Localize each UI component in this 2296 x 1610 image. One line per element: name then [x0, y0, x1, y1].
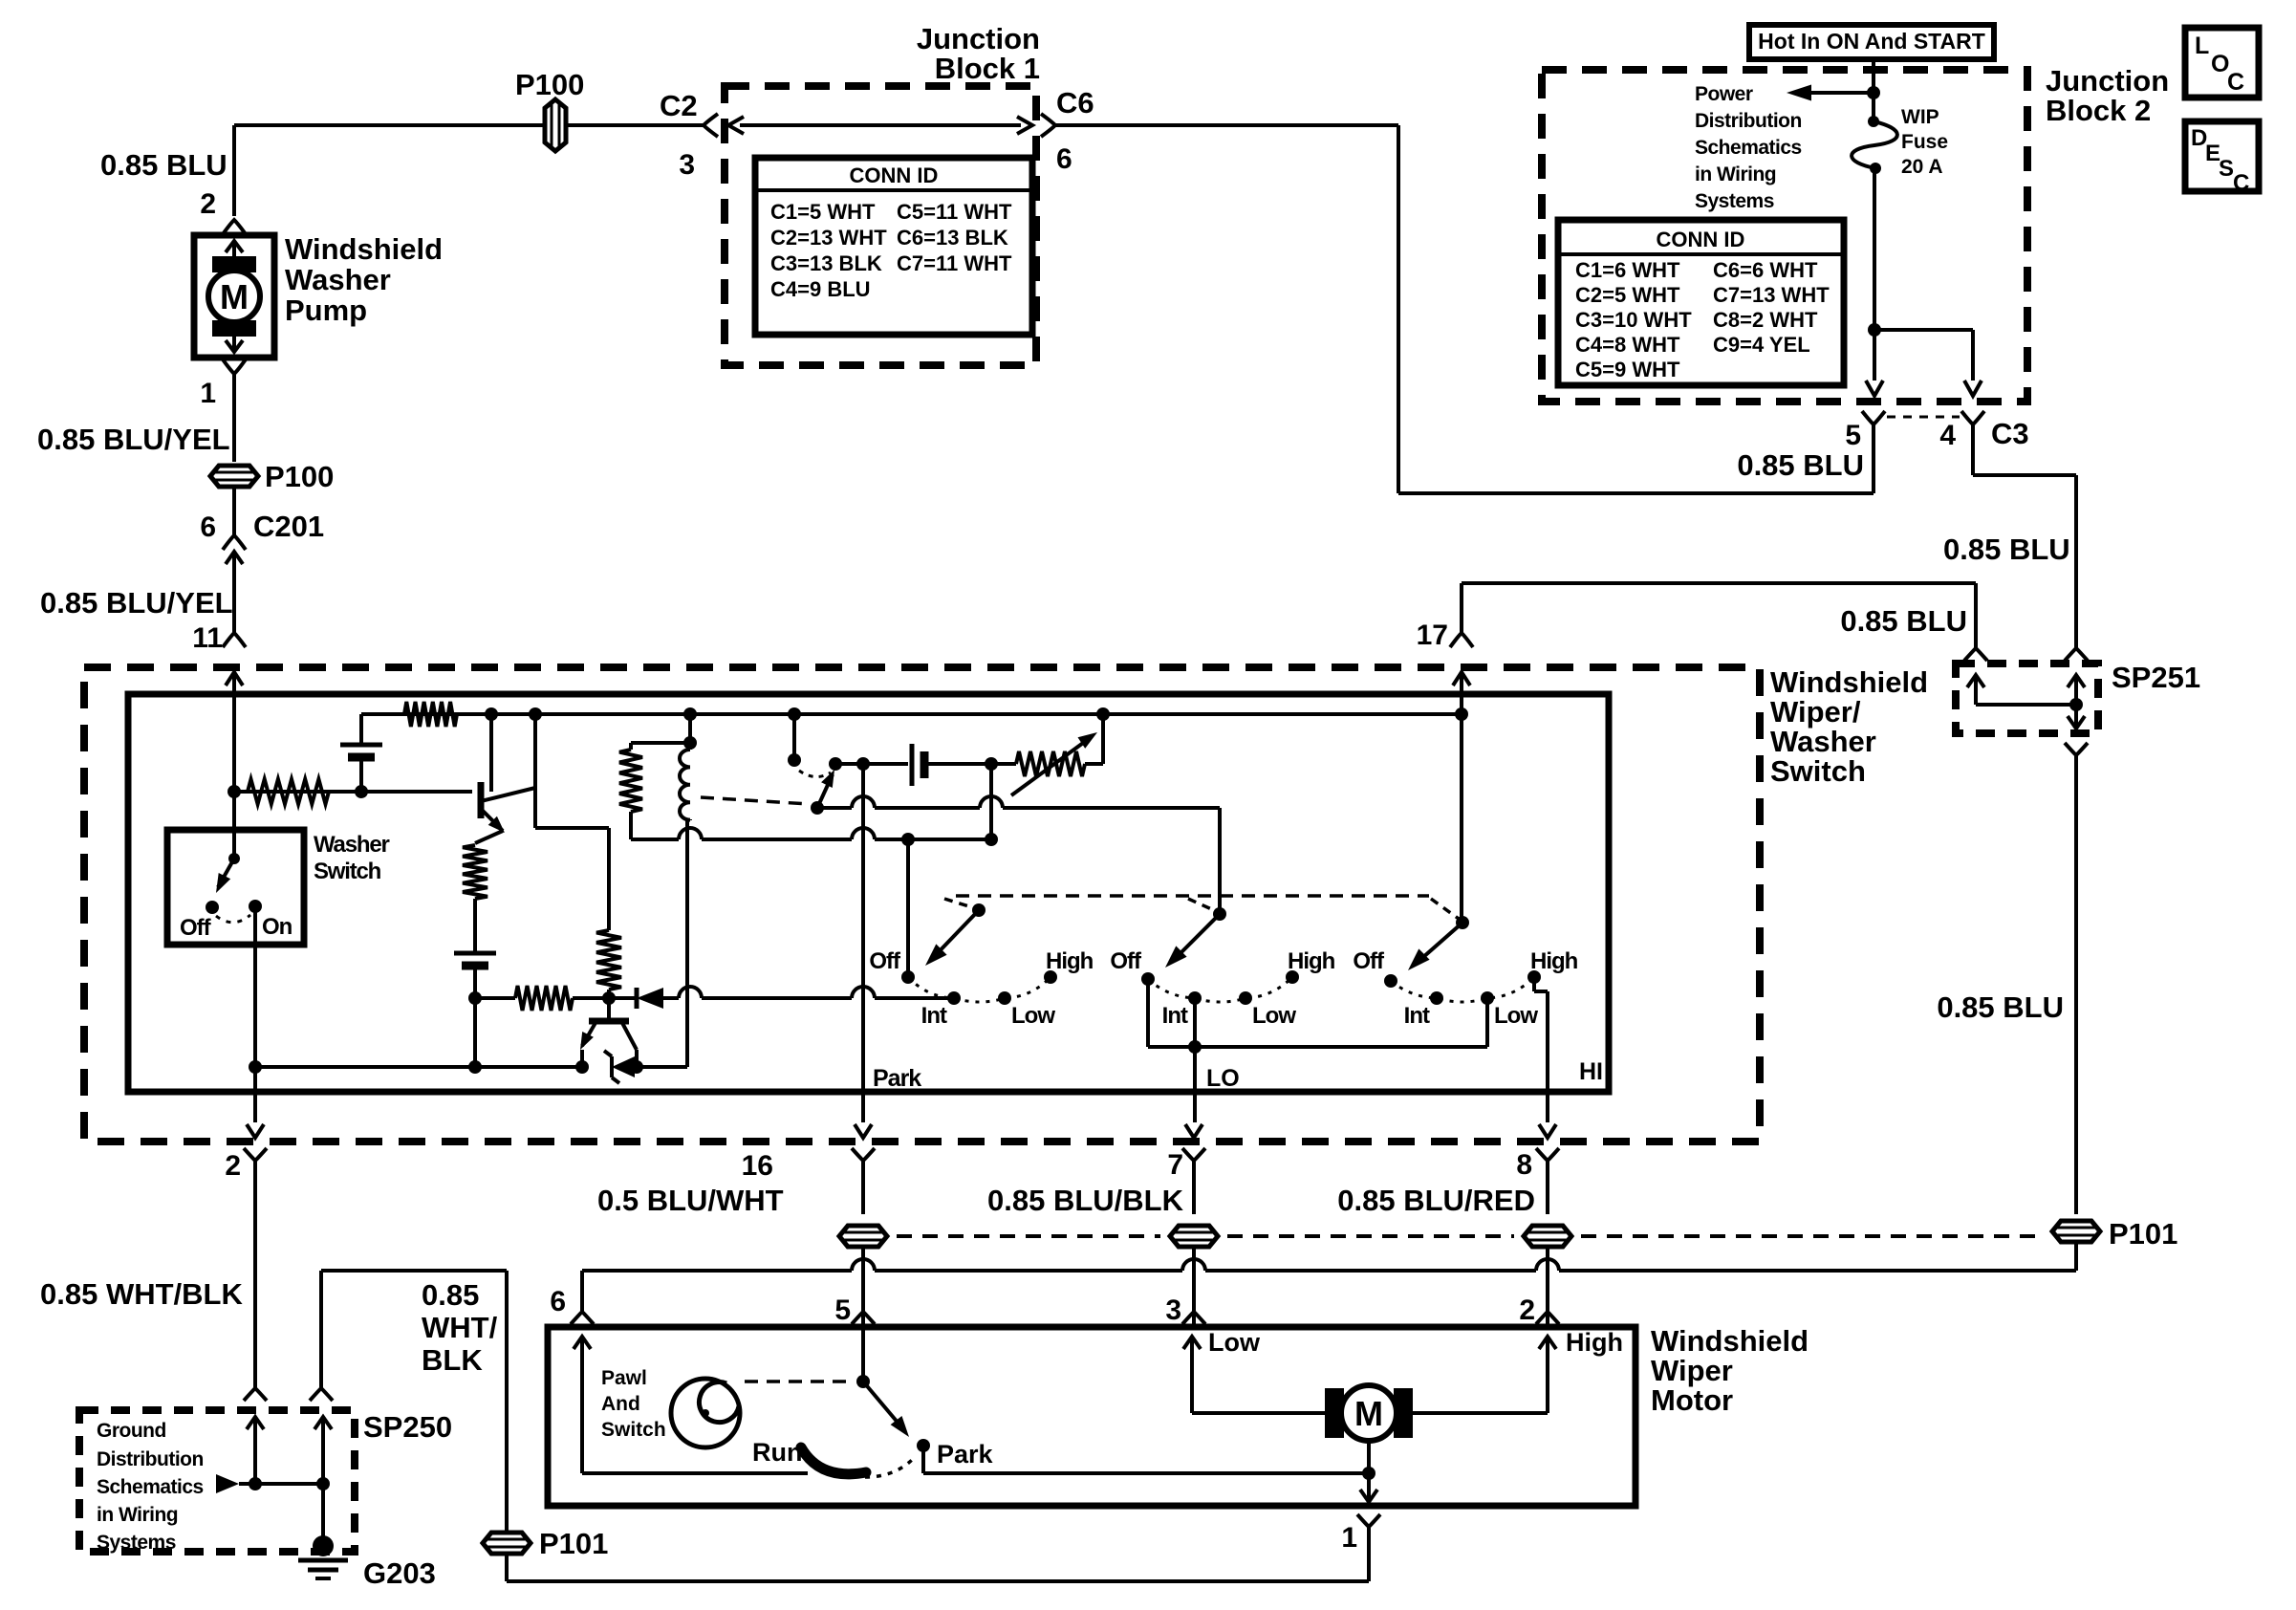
svg-text:G203: G203	[363, 1556, 436, 1590]
P101 grommet right	[2052, 1221, 2100, 1242]
svg-text:C5=9 WHT: C5=9 WHT	[1575, 358, 1680, 381]
rail1 junction dots	[485, 707, 498, 721]
svg-text:Int: Int	[921, 1003, 947, 1029]
svg-text:C7=11 WHT: C7=11 WHT	[897, 251, 1012, 275]
svg-text:Windshield: Windshield	[285, 232, 443, 266]
relay resistor vertical	[619, 750, 642, 812]
P101 grommet left	[483, 1533, 531, 1554]
wire collector to R4 column	[535, 826, 609, 830]
svg-text:SP250: SP250	[363, 1410, 452, 1444]
svg-text:Switch: Switch	[1770, 754, 1866, 788]
switch3 Low contact	[1481, 991, 1494, 1005]
wire motor pin1 riser	[1367, 1527, 1371, 1581]
transistor Q2 base bar	[589, 1018, 629, 1025]
VR1 arrow	[1011, 738, 1090, 795]
svg-text:Power: Power	[1695, 83, 1753, 105]
svg-text:C3: C3	[1991, 417, 2029, 450]
trigger bend to pivot3	[1431, 899, 1459, 919]
svg-text:CONN ID: CONN ID	[850, 163, 939, 187]
washer switch box	[167, 830, 304, 945]
svg-text:P101: P101	[539, 1527, 608, 1560]
zener diode on bus2	[612, 1056, 635, 1077]
LOC box	[2185, 28, 2259, 98]
svg-text:1: 1	[200, 378, 216, 409]
svg-text:Washer: Washer	[314, 832, 389, 858]
svg-text:C1=6 WHT: C1=6 WHT	[1575, 258, 1680, 282]
svg-text:in Wiring: in Wiring	[1695, 163, 1776, 185]
svg-text:C1=5 WHT: C1=5 WHT	[770, 200, 876, 224]
svg-text:Off: Off	[1353, 948, 1385, 974]
junction dot cap right	[985, 757, 998, 771]
capacitor C1 plates	[910, 744, 915, 786]
svg-text:Off: Off	[180, 915, 212, 941]
wire R4 to bus1	[607, 990, 611, 998]
switch2 Int contact	[1188, 991, 1202, 1005]
JB1 CONN ID table box	[755, 158, 1032, 335]
line A hop over cap column	[980, 796, 1003, 808]
relay arm	[817, 774, 833, 808]
svg-text:3: 3	[1165, 1295, 1181, 1326]
line A from relay pivot	[817, 806, 852, 810]
ground wire bottom horizontal	[507, 1579, 1369, 1583]
svg-text:Switch: Switch	[601, 1419, 666, 1441]
diode D1 on bus1	[635, 988, 639, 1009]
svg-text:Block 1: Block 1	[935, 52, 1040, 85]
wire On output x=267	[253, 906, 257, 1122]
svg-text:SP251: SP251	[2112, 661, 2200, 694]
inline connector P100 (top)	[545, 99, 566, 151]
wire 2 exit arrow	[247, 1124, 264, 1138]
svg-text:High: High	[1046, 948, 1094, 974]
ground wire SP250 riser	[319, 1271, 323, 1388]
svg-text:C6=13 BLK: C6=13 BLK	[897, 226, 1008, 250]
svg-text:WHT/: WHT/	[422, 1311, 498, 1344]
wire VR1 to rail1	[1085, 762, 1103, 766]
wire 7 grommet to motor pin3	[1192, 1247, 1196, 1325]
svg-text:Distribution: Distribution	[97, 1448, 204, 1470]
wire cap right column	[989, 764, 993, 839]
svg-text:Washer: Washer	[285, 263, 391, 296]
P101 grommet wire8	[1524, 1226, 1571, 1247]
svg-text:6: 6	[550, 1286, 566, 1317]
bus1 hop over coil wire	[679, 987, 702, 998]
SP251 left internal arrow	[1974, 675, 1978, 705]
wire fuse to outputs	[1873, 168, 1876, 381]
svg-text:2: 2	[200, 188, 216, 220]
wire 16 exit chevron	[852, 1148, 875, 1161]
pump motor brush bottom	[212, 320, 256, 337]
svg-text:C: C	[2233, 170, 2249, 196]
wire 8 exit arrow	[1539, 1124, 1556, 1138]
svg-text:LO: LO	[1206, 1065, 1240, 1092]
junction dot relay top	[683, 736, 697, 750]
SP250 triangle arrow	[216, 1474, 239, 1493]
svg-text:Block 2: Block 2	[2046, 94, 2151, 127]
trigger dashed line	[956, 894, 1429, 898]
motor pin3 chevron	[1182, 1312, 1205, 1324]
connector C201 chevron pair	[223, 535, 246, 550]
svg-text:0.85 WHT/BLK: 0.85 WHT/BLK	[40, 1277, 243, 1311]
motor pin5 chevron	[852, 1312, 875, 1324]
svg-text:0.85 BLU: 0.85 BLU	[1737, 448, 1864, 482]
switch2 Off contact	[1141, 972, 1155, 986]
SP251 internal link	[1976, 703, 2076, 707]
svg-text:Low: Low	[1208, 1328, 1261, 1357]
motor M brush left	[1325, 1388, 1344, 1438]
junction dot LO bus	[1188, 1040, 1202, 1054]
switch2 High contact	[1286, 970, 1299, 984]
park wire x=903	[861, 764, 865, 1122]
svg-text:CONN ID: CONN ID	[1657, 228, 1745, 251]
svg-text:11: 11	[192, 622, 223, 654]
motor feed wire y=1329	[582, 1269, 852, 1273]
feed hop over wire16	[852, 1259, 875, 1271]
run/park arm	[863, 1382, 904, 1430]
connector chevron wire 17	[1450, 633, 1473, 647]
svg-text:High: High	[1566, 1328, 1623, 1357]
motor M bottom lead	[1367, 1441, 1371, 1473]
svg-text:3: 3	[679, 149, 695, 181]
svg-text:C2=13 WHT: C2=13 WHT	[770, 226, 887, 250]
svg-text:Systems: Systems	[1695, 190, 1774, 212]
relay fixed contact drop	[792, 714, 796, 758]
ground wire horizontal y=1329	[321, 1269, 507, 1273]
svg-text:Windshield: Windshield	[1651, 1324, 1809, 1358]
wire SP251 to P101	[2074, 755, 2078, 1214]
svg-text:Schematics: Schematics	[97, 1476, 204, 1498]
svg-text:M: M	[220, 277, 249, 316]
switch1 pivot dot	[972, 903, 986, 917]
power distribution arrow	[1806, 91, 1874, 95]
svg-text:C4=8 WHT: C4=8 WHT	[1575, 333, 1680, 357]
motor pin2 chevron	[1536, 1312, 1559, 1324]
svg-text:Junction: Junction	[917, 22, 1040, 55]
pump pin 1 connector chevron	[223, 359, 246, 374]
wire SP251 left drop	[1974, 583, 1978, 650]
feed hop over wire7	[1182, 1259, 1205, 1271]
wire 16 grommet to motor pin5	[861, 1247, 865, 1325]
svg-text:Low: Low	[1011, 1003, 1055, 1029]
svg-text:C8=2 WHT: C8=2 WHT	[1713, 308, 1818, 332]
wire sw1 Off drop	[906, 839, 910, 977]
relay coil	[680, 750, 690, 820]
junction dot R4/bus1	[602, 991, 616, 1005]
svg-text:P100: P100	[265, 460, 334, 493]
motor pin2 internal arrow	[1546, 1337, 1549, 1413]
connector chevron wire 11 at switch	[223, 633, 246, 647]
SP251 output arrow	[2074, 705, 2078, 729]
transistor Q2 emitter	[582, 1021, 596, 1046]
motor pin6 internal arrow	[580, 1337, 584, 1473]
wire 17 inner column	[1460, 714, 1463, 923]
connector C3 chevron pin 4	[1961, 411, 1984, 424]
svg-text:0.85 BLU/YEL: 0.85 BLU/YEL	[37, 423, 230, 456]
svg-text:Washer: Washer	[1770, 725, 1876, 758]
transistor Q1 base bar	[478, 782, 485, 818]
junction dot On/bus2	[249, 1060, 262, 1074]
wire pin4 to SP251 right	[1971, 424, 1975, 475]
washer switch arm	[218, 859, 234, 887]
transistor Q2 collector	[621, 1021, 637, 1050]
svg-text:Int: Int	[1162, 1003, 1188, 1029]
HI wire	[1532, 977, 1536, 991]
pump arrow down	[232, 337, 236, 352]
svg-text:C2=5 WHT: C2=5 WHT	[1575, 283, 1680, 307]
JB2 branch to pin 4	[1874, 328, 1973, 332]
svg-text:17: 17	[1417, 620, 1448, 651]
battery B1 lead bottom	[359, 757, 363, 792]
relay stub to rail1	[688, 714, 692, 743]
pump motor brush top	[212, 256, 256, 272]
line B from resistor bottom	[631, 838, 679, 841]
WIP fuse element	[1868, 116, 1879, 127]
wire emitter to R3	[475, 831, 503, 843]
JB2 junction dot top	[1867, 86, 1880, 99]
junction dot B2/bus1	[468, 991, 482, 1005]
washer switch dashed arc	[216, 915, 250, 923]
junction dot line B / sw1 Off wire	[901, 833, 915, 846]
motor pin6 chevron	[571, 1312, 594, 1324]
junction dot x=497 bus2	[468, 1060, 482, 1074]
svg-text:0.85 BLU: 0.85 BLU	[100, 148, 227, 182]
svg-text:Systems: Systems	[97, 1532, 176, 1554]
svg-text:Wiper/: Wiper/	[1770, 695, 1861, 729]
wire 0.85 BLU/YEL (pump to P100)	[232, 374, 236, 462]
rail1 wire y=747	[361, 712, 1462, 716]
wire 17 entry arrow	[1453, 672, 1470, 685]
svg-text:C9=4 YEL: C9=4 YEL	[1713, 333, 1810, 357]
junction dot motor bottom	[1362, 1467, 1375, 1480]
svg-text:0.85 BLU: 0.85 BLU	[1840, 604, 1967, 638]
svg-text:4: 4	[1939, 420, 1956, 451]
svg-text:6: 6	[200, 511, 216, 543]
svg-text:Off: Off	[1110, 948, 1142, 974]
JB2 CONN ID table box	[1558, 220, 1844, 385]
park contact dot	[917, 1439, 930, 1452]
transistor Q1 collector	[481, 788, 535, 801]
svg-text:0.85: 0.85	[422, 1278, 479, 1312]
windshield washer pump connector chevron pin 2	[223, 220, 246, 234]
wire drop x=514	[489, 714, 493, 792]
SP250 junction dots	[249, 1477, 262, 1490]
resistor R4 vertical	[596, 930, 621, 990]
SP251 chevron right entry	[2065, 648, 2088, 661]
svg-text:C: C	[2227, 69, 2244, 96]
switch2 Int wire	[1193, 998, 1197, 1047]
wire horizontal y=516 to pin 5	[1398, 491, 1874, 495]
wire drop x=560	[533, 714, 537, 828]
junction dots Q2/bus2	[575, 1060, 589, 1074]
svg-text:High: High	[1530, 948, 1578, 974]
svg-text:WIP: WIP	[1901, 106, 1939, 128]
pawl dashed link	[745, 1380, 854, 1383]
cap line right	[924, 762, 991, 766]
svg-text:C7=13 WHT: C7=13 WHT	[1713, 283, 1830, 307]
svg-text:0.85 BLU: 0.85 BLU	[1943, 533, 2070, 566]
wire 0.85 BLU vertical to pump	[232, 125, 236, 216]
svg-text:C6=6 WHT: C6=6 WHT	[1713, 258, 1818, 282]
svg-text:7: 7	[1167, 1149, 1183, 1181]
line B hop over park wire	[852, 828, 875, 839]
motor pin5 internal wire	[861, 1327, 865, 1382]
relay contact dashed arc	[799, 771, 831, 777]
wire 7 to grommet	[1192, 1161, 1196, 1214]
switch1 arm	[931, 910, 979, 960]
svg-text:Switch: Switch	[314, 859, 381, 884]
svg-text:L: L	[2195, 33, 2209, 59]
svg-text:16: 16	[742, 1150, 773, 1182]
switch1 contact arc	[908, 977, 1051, 1002]
wire vertical drop x=1463	[1397, 125, 1400, 493]
svg-text:C2: C2	[660, 89, 698, 122]
SP250 wire2 internal arrow	[253, 1417, 257, 1484]
windshield wiper/washer switch dashed box	[84, 667, 1760, 1142]
wire pin6 drop	[580, 1271, 584, 1311]
line B hop over coil wire	[679, 828, 702, 839]
motor pin1 exit arrow	[1367, 1473, 1371, 1502]
wire R3 to battery B2	[473, 899, 477, 953]
svg-text:Int: Int	[1404, 1003, 1430, 1029]
rail2 wire y=828	[234, 790, 472, 794]
wire 8 to grommet	[1546, 1161, 1549, 1214]
svg-text:Wiper: Wiper	[1651, 1354, 1733, 1387]
SP250 entry chevron ground	[310, 1388, 333, 1401]
svg-text:6: 6	[1056, 143, 1072, 175]
svg-text:Junction: Junction	[2046, 64, 2169, 98]
svg-text:2: 2	[1519, 1295, 1535, 1326]
wire to variable resistor	[991, 762, 1016, 766]
svg-text:Ground: Ground	[97, 1420, 166, 1442]
svg-text:M: M	[1354, 1394, 1383, 1433]
junction dot park/cap line	[856, 757, 870, 771]
svg-text:Hot In ON And START: Hot In ON And START	[1758, 29, 1985, 54]
svg-text:C201: C201	[253, 510, 324, 543]
svg-text:0.85 BLU: 0.85 BLU	[1937, 990, 2064, 1024]
wire 16 exit arrow	[855, 1124, 872, 1138]
SP250 internal link	[239, 1482, 323, 1486]
cap line left	[835, 762, 908, 766]
wire input column x=245	[232, 694, 236, 859]
variable resistor VR1	[1016, 751, 1085, 776]
run/park pivot dot	[856, 1375, 870, 1388]
switch2 contact arc	[1148, 977, 1292, 1002]
resistor R5 on bus1	[515, 986, 573, 1011]
switch1 Int contact	[947, 991, 961, 1005]
SP251 right internal arrow	[2074, 675, 2078, 705]
P101 grommet wire16	[839, 1226, 887, 1247]
resistor R2 on rail2	[248, 779, 329, 804]
pump arrow up	[232, 241, 236, 256]
windshield washer pump case	[194, 235, 274, 358]
bus2 wire y=1116	[255, 1065, 582, 1069]
svg-text:5: 5	[1845, 420, 1861, 451]
bus1 wire to Int contact	[663, 996, 679, 1000]
wire 7 exit chevron	[1182, 1148, 1205, 1161]
connector C3 chevron pin 5	[1862, 411, 1885, 424]
wire 7 exit arrow	[1185, 1124, 1202, 1138]
resistor R1 on rail1	[404, 702, 457, 727]
wire 0.85 BLU/YEL (P100 to C201)	[232, 487, 236, 535]
run wire to pin6 path	[582, 1471, 808, 1475]
svg-text:BLK: BLK	[422, 1343, 483, 1377]
JB2 junction dot lower	[1868, 323, 1881, 337]
svg-text:Park: Park	[937, 1440, 994, 1469]
svg-text:On: On	[262, 914, 292, 940]
motor M circle	[1341, 1385, 1397, 1441]
wire pin5 vertical	[1872, 424, 1875, 493]
pawl circle	[671, 1379, 740, 1447]
washer switch pivot	[228, 853, 240, 864]
wire LO output	[1193, 1047, 1197, 1122]
svg-text:HI: HI	[1579, 1058, 1603, 1085]
relay arm pivot dot	[811, 801, 824, 815]
windshield wiper motor box	[548, 1327, 1635, 1506]
wire 17 vertical	[1460, 583, 1463, 633]
relay moving contact dot	[829, 757, 842, 771]
wire x=497 to bus2	[473, 998, 477, 1067]
wire B2 to bus1	[473, 966, 477, 998]
junction dot line B end	[985, 833, 998, 846]
motor M left lead	[1192, 1411, 1327, 1415]
SP251 dashed box	[1956, 664, 2098, 733]
wire 8 grommet to motor pin2	[1546, 1247, 1549, 1325]
junction block 2 dashed box	[1542, 70, 2027, 402]
switch3 arm	[1415, 923, 1462, 965]
wire 0.85 BLU from pump pin 2 to C2 (horizontal run)	[234, 123, 705, 127]
switch2 Off wire down	[1146, 979, 1150, 1047]
wire Q2 emitter to bus2	[580, 1050, 584, 1067]
SP250 entry chevron wire2	[244, 1388, 267, 1401]
switch3 contact arc	[1391, 977, 1534, 1002]
washer switch On contact	[249, 900, 262, 913]
motor M brush right	[1394, 1388, 1413, 1438]
ground wire drop x=530	[505, 1271, 509, 1533]
feed hop over wire8	[1536, 1259, 1559, 1271]
wire 8 exit chevron	[1536, 1148, 1559, 1161]
pump motor circle	[208, 271, 260, 322]
switch3 pivot dot	[1456, 916, 1469, 929]
svg-text:Pump: Pump	[285, 294, 367, 327]
trigger bend to pivot1	[944, 899, 975, 908]
wire 0.85 BLU/YEL (C201 to switch)	[232, 564, 236, 633]
svg-text:20 A: 20 A	[1901, 156, 1943, 178]
svg-text:S: S	[2219, 156, 2234, 182]
svg-text:Park: Park	[873, 1065, 921, 1092]
svg-text:Fuse: Fuse	[1901, 131, 1948, 153]
svg-text:2: 2	[225, 1150, 241, 1182]
switch1 High contact	[1044, 970, 1057, 984]
svg-text:Off: Off	[869, 948, 901, 974]
svg-text:5: 5	[834, 1295, 851, 1326]
motor pin3 internal arrow	[1190, 1337, 1194, 1413]
relay top bar	[631, 741, 690, 745]
park wire to motor common	[921, 1446, 925, 1473]
svg-text:0.85 BLU/BLK: 0.85 BLU/BLK	[987, 1184, 1184, 1217]
motor pin1 chevron	[1357, 1514, 1380, 1527]
svg-text:Schematics: Schematics	[1695, 137, 1802, 159]
switch inner solid box	[128, 694, 1609, 1092]
JB2 pin 5 exit arrow	[1866, 381, 1883, 396]
P101 grommet wire7	[1170, 1226, 1218, 1247]
connector C2 female chevron	[704, 114, 718, 137]
svg-text:Motor: Motor	[1651, 1383, 1733, 1417]
wire R4 column upper	[607, 828, 611, 930]
P101 dashed row	[897, 1234, 1160, 1238]
SP250 ground internal arrow	[321, 1417, 325, 1484]
switch2 pivot dot	[1213, 907, 1226, 921]
ground G203 symbol	[313, 1535, 334, 1556]
relay resistor leads	[629, 743, 633, 750]
